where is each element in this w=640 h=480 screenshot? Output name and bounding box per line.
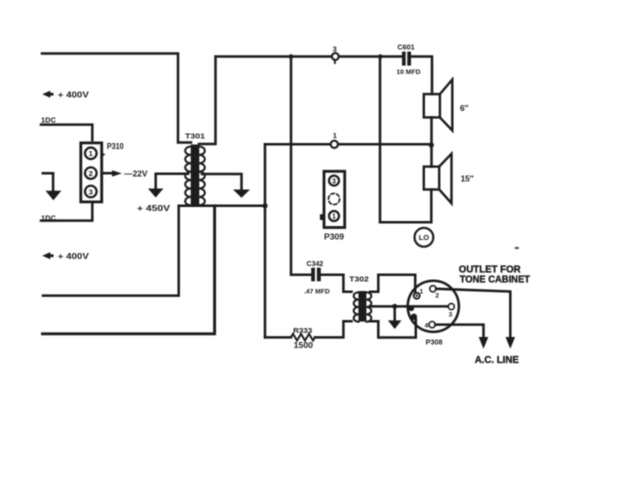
wire C342 to T302 primary top: [321, 275, 352, 292]
wire socket pin 2 to AC line: [436, 289, 510, 337]
P310 pointer nub: [101, 152, 105, 157]
wire T302 secondary center to socket pin 3: [370, 305, 448, 308]
svg-text:3: 3: [333, 44, 337, 53]
wire common return: x379 down, bottom of speakers: [380, 57, 431, 223]
svg-text:1500: 1500: [294, 341, 314, 350]
svg-text:P310: P310: [107, 142, 124, 151]
svg-text:+ 450V: + 450V: [137, 203, 171, 213]
wire T301 secondary bottom to left edge: [43, 206, 215, 334]
node 1 connector circle: [331, 141, 338, 148]
ground arrow left: [46, 191, 62, 200]
wire node-1 vertical x265 down to R333 wire: [264, 144, 267, 337]
wire T302 secondary top to socket pin 1: [370, 275, 415, 293]
svg-text:15″: 15″: [461, 175, 474, 184]
socket pin 3: [448, 304, 454, 310]
svg-text:+ 400V: + 400V: [58, 90, 90, 99]
speck: [515, 247, 519, 249]
arrow +450V: [148, 189, 163, 198]
svg-text:2: 2: [435, 292, 439, 299]
socket edge pin lower: [411, 314, 417, 320]
ground arrow T301 secondary: [233, 190, 250, 198]
svg-text:2: 2: [89, 169, 93, 178]
connector P309: [324, 171, 345, 227]
node 1 wire: [265, 143, 431, 146]
svg-text:.47 MFD: .47 MFD: [304, 289, 330, 296]
svg-text:3: 3: [89, 187, 93, 196]
svg-text:3: 3: [449, 312, 453, 319]
svg-text:T301: T301: [185, 132, 205, 141]
wire T301 primary tap to +450V arrow: [156, 174, 188, 189]
arrow +400V upper: [42, 91, 53, 98]
wire T301 secondary top up and right to C601: [199, 57, 401, 145]
wire T301 secondary tap to ground: [202, 174, 242, 190]
wire top-left B+ to T301 primary top: [42, 54, 191, 143]
capacitor C342: [311, 268, 321, 282]
svg-text:LO: LO: [419, 233, 430, 242]
svg-text:3: 3: [332, 178, 336, 185]
wire DC into P310 pin1: [41, 125, 92, 140]
wire left ground hook: [43, 173, 53, 191]
svg-text:C601: C601: [397, 43, 414, 52]
svg-text:1DC: 1DC: [41, 118, 56, 125]
arrow -22V: [112, 170, 122, 176]
label P309 pin numbers: [332, 178, 336, 220]
svg-text:A.C. LINE: A.C. LINE: [475, 355, 520, 366]
node junction T301 bottom / x265: [262, 203, 267, 208]
svg-text:P308: P308: [426, 338, 443, 347]
socket edge pin upper: [409, 306, 415, 312]
label P310 pin numbers: [89, 149, 94, 196]
svg-text:—22V: —22V: [124, 169, 148, 179]
svg-text:R333: R333: [293, 328, 312, 335]
ground arrow T302: [388, 320, 402, 329]
arrow AC line right: [506, 337, 516, 349]
arrow AC line left: [479, 337, 489, 349]
svg-text:C342: C342: [307, 259, 324, 268]
svg-text:1DC: 1DC: [41, 215, 56, 222]
wire socket pin 4 to AC line: [435, 325, 483, 337]
arrow +400V lower: [42, 252, 53, 259]
svg-text:+ 400V: + 400V: [58, 252, 90, 261]
wire P310 pin3 to left edge: [41, 202, 92, 221]
transformer T302: [354, 291, 372, 322]
svg-text:10 MFD: 10 MFD: [396, 69, 420, 76]
node junction ground branch: [392, 304, 397, 309]
balloon LO: [415, 228, 434, 247]
label socket pin numbers: [420, 288, 453, 329]
wire R333 line: x265 corner to T302 primary bottom: [265, 336, 291, 339]
connector P310: [81, 143, 102, 202]
P309 nub: [320, 214, 324, 220]
wire C601 to 6in speaker: [411, 57, 432, 95]
capacitor C601: [402, 52, 411, 66]
resistor R333: [291, 334, 315, 341]
svg-text:OUTLET FOR: OUTLET FOR: [459, 264, 521, 275]
wire ground stem T302: [393, 306, 396, 320]
wire 6in bottom down through node-1 junction to 15in top: [430, 117, 433, 166]
wire P310 pin2 to -22V: [102, 172, 113, 175]
svg-text:P309: P309: [324, 232, 345, 241]
svg-text:1: 1: [333, 131, 337, 140]
speaker 6in: [424, 80, 453, 131]
wire R333 to T302 primary bottom: [315, 321, 352, 337]
node junction 6in/15in: [429, 142, 434, 147]
socket pin 2: [430, 286, 436, 292]
wire vertical x291 down to C342: [291, 57, 311, 275]
socket pin 4: [429, 322, 435, 328]
socket pin 1: [414, 293, 420, 299]
wire T301 primary bottom to left edge: [43, 206, 179, 296]
wire T302 secondary bottom to socket edge pin: [370, 320, 416, 338]
node junction at x291 top wire: [289, 54, 294, 59]
svg-text:T302: T302: [349, 274, 369, 283]
socket P308 outline: [408, 281, 459, 332]
svg-text:1: 1: [420, 288, 424, 295]
speaker 15in: [424, 154, 452, 204]
transformer T301 bottom wire: [179, 205, 265, 208]
svg-text:4: 4: [425, 323, 429, 330]
svg-text:6″: 6″: [460, 104, 469, 113]
node 3 connector circle: [332, 53, 339, 63]
node junction at x380 top wire: [378, 54, 383, 59]
svg-text:TONE CABINET: TONE CABINET: [460, 275, 530, 286]
svg-text:1: 1: [332, 214, 336, 221]
transformer T301: [185, 145, 205, 206]
